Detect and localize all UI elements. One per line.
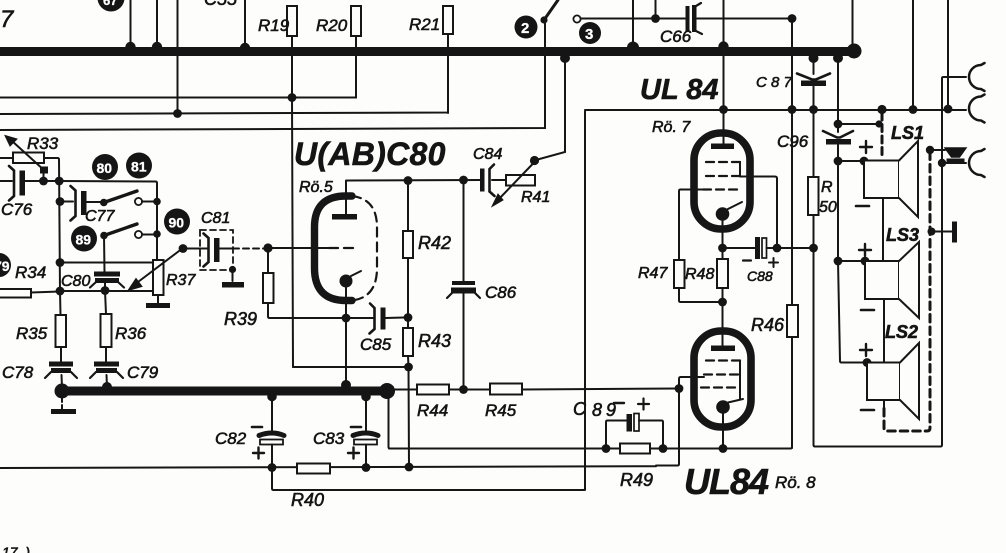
svg-text:C81: C81 [201,210,230,227]
resistor R42 [403,181,451,259]
minus sign LS1 [856,205,869,208]
wire R48 top [722,248,724,259]
junction R50 bottom y248 [809,244,818,253]
junction C86 bottom [459,385,468,394]
wire C76 node to switch column [59,181,157,260]
wire x882 stub from y109 [881,109,883,114]
svg-text:C55: C55 [204,0,238,9]
junction C83 bias line [362,463,371,472]
shield dashed drop to LS1 [881,113,884,158]
capacitor C84 [480,165,506,197]
capacitor C87 [797,56,830,109]
junction x292 y98 [288,93,297,102]
grid wire Rö.5 [268,247,330,249]
junction x838 y124 [834,120,843,129]
wire LS3 to LS2 [883,299,885,362]
junction cathode node y248 [718,244,727,253]
svg-text:R39: R39 [224,309,257,329]
junction R43/R39 line [404,363,413,372]
main supply bus (thick) [0,47,856,56]
svg-text:17 ): 17 ) [2,544,30,553]
junction LS1 corner [860,157,869,166]
junction below bus x565 [560,53,570,63]
minus sign LS3 [861,309,874,312]
anode top line y109 [585,109,966,111]
junction x877 y124 [875,120,882,127]
junction R37 wiper node [179,244,188,253]
socket 1 [969,63,984,91]
wire R50 to jack loop [814,77,967,447]
ground C81 shield [222,266,244,288]
tube Rö.8 (UL84) [694,331,751,427]
potentiometer R37 [128,250,196,296]
junction cathode Rö.8 [719,444,728,453]
svg-text:C76: C76 [1,200,33,219]
wire top vertical x948 [947,0,949,109]
potentiometer R33 [0,136,58,186]
ground R37 [146,295,170,308]
svg-text:R: R [821,179,833,196]
earpiece jack symbol [945,148,966,163]
resistor R46 [751,305,798,337]
junction x913 y109 [909,105,918,114]
junction LS3 corner [861,257,870,266]
resistor R21 [409,6,453,47]
shield box C81 (dashed) [200,230,233,270]
wire top vertical x913 [912,0,914,109]
capacitor C96 [823,56,853,161]
bottom bus (thick) [60,387,394,396]
capacitor C76 [0,166,59,201]
loudspeaker LS1 [864,141,918,217]
grid rows Rö.8 [701,361,740,388]
stage wire x585 [585,110,587,490]
svg-text:C79: C79 [127,363,159,382]
capacitor C79 (electrolytic) [90,362,123,388]
svg-text:81: 81 [131,159,147,175]
wire top vertical x655 [655,0,657,19]
junction x723 y109 [719,105,728,114]
junction C89 left [602,444,611,453]
junction x942 y163 [938,159,946,167]
shield cable dashed run [884,152,930,431]
svg-text:R36: R36 [115,324,147,343]
svg-text:C78: C78 [2,363,34,382]
svg-text:2: 2 [521,20,529,37]
svg-text:R47: R47 [638,265,668,282]
cathode Rö.8 [716,399,743,449]
wire top vertical x157 [156,0,158,48]
wire R33 right drop [58,158,61,291]
junction on bus x245 [240,43,250,53]
capacitor C83 (electrolytic) [348,392,378,467]
capacitor C88 [723,237,779,284]
grid feed line y389 [393,389,679,390]
svg-text:LS1: LS1 [891,123,924,143]
cathode Rö.7 [716,202,742,248]
svg-text:C84: C84 [473,146,502,163]
junction rail y261 [834,257,843,266]
anode Rö.5 [332,181,357,220]
resistor R45 [485,384,522,421]
svg-text:R33: R33 [27,134,59,153]
anode Rö.8 [711,346,735,352]
junction C85 right [404,313,413,322]
socket 2 [969,95,985,123]
switch 80/81 upper [100,191,157,206]
wire bus drop x565 to R41 node [534,52,565,161]
junction shield top [926,146,934,154]
anode Rö.7 [711,110,734,149]
tube Rö.7 (UL84) [694,133,750,229]
svg-text:80: 80 [97,160,113,176]
junction C89 right [659,444,668,453]
wire bus end up to top edge [852,0,854,46]
wire y262 to R37 [60,262,153,264]
plus sign LS1 [860,141,872,153]
junction x157 y234 [153,230,161,238]
junction LS2 corner [863,358,872,367]
svg-text:R20: R20 [316,16,348,35]
terminal circle 81 [126,153,152,179]
potentiometer R41 [492,162,550,207]
wire R47/R48 bottoms joined [679,288,723,302]
feedback line y490 [272,468,585,491]
wire switch 89 to C80 [103,236,106,273]
socket 3 [969,149,984,177]
tube Rö.5 dashed side [352,196,377,301]
svg-text:R42: R42 [418,233,451,253]
junction cathode on bottom bus [341,380,351,390]
terminal circle 2 [515,16,538,39]
wire LS2 bottom stub [883,400,885,407]
capacitor C80 (electrolytic) [90,272,124,292]
capacitor C89 [606,414,663,449]
junction x948 y108 [944,105,953,114]
resistor R50 [808,177,837,216]
junction x813 y109 [809,105,818,114]
svg-text:R43: R43 [418,331,451,351]
resistor R20 [316,6,361,47]
junction x60 y262 [56,258,65,267]
resistor R35 [56,291,67,362]
wire to socket 3 [942,162,966,164]
capacitor C77 [60,186,104,221]
svg-text:C77: C77 [85,208,115,225]
switch lever contact 2 [540,0,558,24]
wire anode Rö.8 from SRPP node [722,302,724,346]
svg-text:50: 50 [819,199,837,216]
wire x292 long drop [292,98,293,368]
capacitor C86 [447,180,480,389]
junction on bus x131 [125,42,135,52]
junction x882 y109 [877,105,886,114]
wire C66 right to x792 [697,18,792,20]
svg-text:LS2: LS2 [885,322,918,342]
node line y113 [0,52,448,114]
grid rows Rö.7 [703,162,740,190]
dashed wire C81 to grid node [233,248,265,250]
svg-text:67: 67 [103,0,117,8]
junction on bus x157 [152,42,162,52]
wire C88 node to R50 bottom [777,247,814,249]
terminal circle 67 (cut at top) [98,0,125,12]
loudspeaker LS2 [867,343,919,419]
junction R42 top [404,176,413,185]
wire R46 down to cathode line [791,337,793,448]
terminal circle 80 [92,154,118,180]
capacitor C81 [204,234,234,267]
svg-text:Rö. 8: Rö. 8 [775,473,816,492]
junction below bus x838 [833,53,843,63]
junction x60 y201 [56,197,65,206]
svg-text:R49: R49 [620,470,653,490]
svg-text:90: 90 [169,215,185,231]
junction C80 bottom [101,286,110,295]
capacitor C82 (electrolytic) [252,392,284,468]
wire top vertical x131 [130,0,132,48]
junction C79 on bus [102,382,112,392]
grid1 wire Rö.7 to R47 [679,190,704,261]
junction cathode/C85 [342,314,351,323]
svg-text:C88: C88 [747,268,773,284]
resistor R47 [638,260,685,288]
junction on bus x633 [627,42,639,54]
resistor R48 [685,259,728,288]
svg-text:C 8 7: C 8 7 [756,74,793,91]
wire stub y124 to shield [838,123,879,125]
junction R45 feed y388 [675,384,684,393]
grid1 wire Rö.8 [656,377,704,466]
svg-text:R46: R46 [751,315,785,335]
junction node line x655 [651,14,660,23]
switch contact circle 3 [573,15,580,22]
wire R19 below bus [291,52,293,98]
junction x60 y291 [56,287,65,296]
tube Rö.5 (UABC80) solid part [315,196,353,301]
wire node line y18 [581,18,685,20]
junction x792 y109 [788,105,797,114]
resistor R43 [403,328,451,356]
junction x59 y181 [55,177,64,186]
grid connector Rö.7 [739,162,741,176]
wire bus end down to cathode line [389,394,391,449]
capacitor C66 [660,3,702,46]
svg-text:R21: R21 [409,15,440,34]
wire R20 below bus [355,52,357,97]
speaker rail x838 [838,161,867,363]
wire top vertical x177 down to node line 2 [177,0,179,114]
wire R42 to R43 [407,258,409,328]
svg-text:Rö.5: Rö.5 [299,179,333,196]
svg-text:3: 3 [585,26,593,43]
junction R43 chain bias line [405,463,414,472]
svg-text:R35: R35 [16,324,48,343]
wire R43 bottom [407,356,410,367]
plus sign LS3 [859,244,871,256]
junction x722 y302 [718,298,727,307]
plus sign C89 [638,399,649,410]
svg-text:C83: C83 [313,429,345,448]
grid connector Rö.8 [739,361,741,400]
svg-text:R41: R41 [521,189,550,206]
switch 89 lower [100,224,157,239]
wire shield to earpiece [930,149,945,151]
junction C86 top [459,176,468,185]
svg-text:79: 79 [0,258,10,274]
wire rail to LS3 [838,260,865,262]
node line y129 to switch contact 2 [0,20,545,130]
svg-text:89: 89 [76,232,92,248]
loudspeaker LS3 [865,242,919,318]
svg-text:R19: R19 [258,16,290,35]
node line y97 [0,52,356,98]
anode line y180 [346,180,481,182]
resistor R34 (cut at left) [0,289,60,298]
svg-text:U(AB)C80: U(AB)C80 [294,136,446,172]
junction g2/C88 node [773,244,782,253]
terminal circle 89 [71,226,97,252]
wire top vertical x633 to bus [632,0,634,48]
junction grid node x268 [263,243,272,252]
resistor R19 [258,6,297,47]
svg-text:C96: C96 [777,132,809,151]
terminal circle 79 (cut at left edge) [0,253,11,277]
wire top vertical x245 [244,0,246,48]
resistor R44 [417,385,449,421]
bus end blob [847,44,862,59]
svg-text:C82: C82 [215,429,247,448]
svg-text:R48: R48 [685,266,714,283]
wire LS1 to LS3 [882,198,884,261]
wire R43 node down to bias line [408,367,411,467]
svg-text:Rö. 7: Rö. 7 [652,119,691,136]
svg-text:R44: R44 [417,401,448,420]
resistor R49 [620,444,653,491]
ground below bus left [51,398,76,414]
junction C82 bias line [268,463,277,472]
junction R41 wiper node [530,156,539,165]
capacitor C78 (electrolytic) [45,362,77,388]
plus sign LS2 [860,344,872,356]
chassis terminal [928,222,958,243]
cathode Rö.5 [340,271,362,387]
svg-text:R34: R34 [15,263,46,282]
minus sign C89 [614,402,624,404]
junction x792 y18 [788,14,797,23]
svg-text:C86: C86 [485,283,517,302]
svg-text:C66: C66 [660,27,692,46]
svg-text:C85: C85 [360,335,392,354]
svg-text:UL84: UL84 [684,461,769,502]
wire top vertical x723 anode feed [723,0,725,110]
minus sign LS2 [861,409,874,412]
junction below bus x813 [809,53,819,63]
svg-text:C80: C80 [61,273,90,290]
svg-text:R40: R40 [291,490,324,510]
wire wiper node to C81 [183,248,207,250]
svg-text:UL 84: UL 84 [640,74,718,106]
bus left blob [55,384,70,399]
wire rail to LS1 [838,160,864,162]
wire R39 bottom to cathode node [268,303,346,318]
resistor R40 [291,464,330,511]
svg-text:LS3: LS3 [886,225,919,245]
screen grid wire Rö.7 to C88 [740,177,777,249]
resistor R39 [224,248,274,329]
svg-text:R45: R45 [485,401,517,420]
junction on bus x723 [718,41,728,51]
junction rail y161 [834,157,843,166]
wire R21 below bus [447,52,449,113]
wire y291 to R37 [60,290,153,292]
wire x292 corner to R43 node [293,366,409,368]
svg-text:R37: R37 [166,272,196,289]
R50 chain from y109 [813,109,815,177]
terminal circle 3 [579,22,601,44]
junction x157 y201 [153,198,161,206]
resistor R36 [101,291,112,363]
svg-text:7: 7 [0,6,15,33]
wire x792 drop through R46 [791,19,793,306]
grid Rö.5 [329,247,357,249]
capacitor C85 [346,304,404,355]
junction x177 y114 [173,109,182,118]
bus right blob [379,383,395,399]
svg-text:C: C [573,399,587,419]
terminal circle 90 [164,209,190,235]
cathode line y448 [389,337,792,449]
bias line y467 [0,466,656,468]
